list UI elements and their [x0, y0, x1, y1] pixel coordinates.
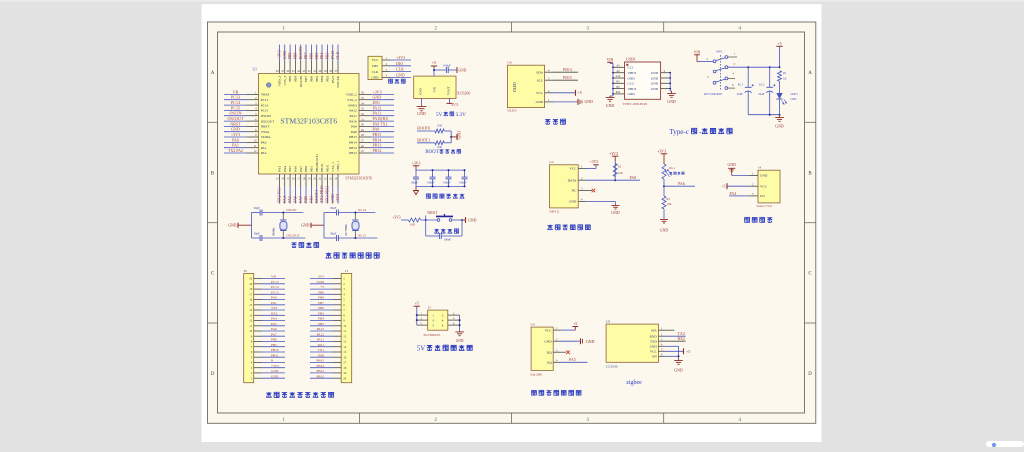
svg-text:PB5: PB5	[315, 76, 319, 82]
svg-text:VSSA: VSSA	[261, 130, 270, 134]
svg-text:30pF: 30pF	[330, 232, 337, 236]
svg-text:GND: GND	[651, 82, 659, 86]
caption download port	[389, 79, 406, 84]
svg-text:PB4: PB4	[318, 317, 324, 321]
svg-text:PC15: PC15	[358, 234, 366, 238]
capacitors C5-C8 100nF chip filter	[411, 161, 468, 194]
svg-text:AQ: AQ	[547, 361, 552, 365]
svg-text:PB6: PB6	[318, 306, 324, 310]
svg-text:PB9: PB9	[318, 290, 324, 294]
svg-text:+5: +5	[573, 322, 577, 326]
svg-text:PB11: PB11	[271, 353, 279, 357]
svg-text:BOOT0: BOOT0	[417, 126, 430, 131]
svg-text:TX2: TX2	[271, 306, 278, 310]
connector J1 20-pin header	[310, 269, 352, 383]
connector J2 Pin HDR2X3 backup power	[414, 302, 464, 343]
svg-text:5V: 5V	[417, 346, 425, 353]
svg-text:GND: GND	[585, 100, 594, 104]
svg-text:GND: GND	[419, 88, 423, 95]
svg-text:PA4: PA4	[271, 317, 277, 321]
svg-text:OSCOUT: OSCOUT	[227, 116, 244, 121]
svg-text:RX2 PA3: RX2 PA3	[277, 187, 282, 202]
svg-text:+3V3: +3V3	[412, 161, 421, 165]
svg-text:PA8: PA8	[373, 127, 380, 132]
svg-text:PB1: PB1	[309, 166, 313, 172]
schematic sheet with border frame	[208, 22, 816, 423]
svg-text:Sensor V2.0: Sensor V2.0	[757, 204, 773, 208]
svg-text:SDA: SDA	[536, 70, 543, 74]
svg-text:3V3: 3V3	[451, 102, 458, 107]
svg-text:PC14: PC14	[358, 208, 366, 212]
caption MCU minimal system	[326, 253, 380, 259]
svg-text:PA1: PA1	[261, 146, 267, 150]
svg-text:PB5: PB5	[318, 311, 324, 315]
svg-text:DIO: DIO	[372, 64, 378, 68]
svg-text:PB13: PB13	[373, 143, 382, 148]
svg-text:GND: GND	[667, 100, 676, 104]
connector J4 soil moisture Sensor V2.0	[721, 163, 780, 208]
svg-text:VCC: VCC	[372, 58, 380, 62]
svg-text:PB14: PB14	[373, 137, 382, 142]
caption Type-c power circuit	[670, 128, 733, 136]
sensor U2 DHT11 with pull-up R2	[549, 152, 640, 215]
resistors R4 R5 10K BOOT config	[417, 123, 462, 149]
svg-text:PC14: PC14	[271, 285, 279, 289]
svg-text:PA6: PA6	[271, 327, 277, 331]
svg-text:GND: GND	[417, 112, 426, 116]
svg-text:PA5: PA5	[271, 322, 277, 326]
svg-text:+3V3: +3V3	[590, 160, 598, 164]
svg-text:VB: VB	[233, 89, 239, 94]
svg-text:VCC: VCC	[545, 328, 553, 332]
svg-text:+3V3: +3V3	[277, 50, 282, 59]
svg-text:100nF: 100nF	[411, 180, 419, 184]
svg-text:PC15: PC15	[261, 109, 269, 113]
caption display screen	[545, 119, 565, 124]
svg-text:+3V3: +3V3	[396, 55, 405, 60]
svg-text:PB8: PB8	[293, 75, 297, 81]
svg-text:GND: GND	[536, 100, 544, 104]
svg-text:GND: GND	[301, 224, 310, 228]
svg-text:GND: GND	[468, 218, 477, 222]
svg-text:10: 10	[249, 329, 253, 333]
svg-text:VSS_3: VSS_3	[283, 76, 287, 86]
svg-text:BOOT1: BOOT1	[417, 137, 430, 142]
svg-text:100nF: 100nF	[427, 180, 435, 184]
svg-text:J4: J4	[758, 166, 761, 170]
svg-text:PB12: PB12	[373, 148, 382, 153]
svg-text:KQ-2801: KQ-2801	[531, 373, 543, 377]
svg-text:GND: GND	[674, 369, 683, 373]
svg-text:TXD: TXD	[650, 339, 657, 343]
svg-text:PA8: PA8	[318, 353, 324, 357]
svg-text:GND: GND	[282, 51, 287, 60]
svg-text:Type-c: Type-c	[670, 128, 689, 136]
svg-text:PB6: PB6	[308, 53, 313, 60]
svg-text:PB0: PB0	[271, 338, 277, 342]
svg-text:BOOT0: BOOT0	[298, 47, 303, 60]
svg-text:PB14: PB14	[563, 67, 572, 72]
svg-text:VB: VB	[271, 275, 276, 279]
svg-text:PB15: PB15	[373, 132, 382, 137]
svg-text:3V3: 3V3	[318, 275, 324, 279]
svg-text:Pin HDR2X3: Pin HDR2X3	[424, 333, 441, 337]
svg-text:RXD: RXD	[650, 334, 658, 338]
svg-text:PC14: PC14	[231, 100, 240, 105]
svg-text:OLED: OLED	[513, 82, 517, 92]
svg-text:PB3: PB3	[318, 322, 324, 326]
svg-text:GND: GND	[660, 229, 669, 233]
svg-text:10: 10	[343, 324, 347, 328]
svg-text:U3: U3	[606, 319, 610, 323]
svg-text:DIO: DIO	[396, 61, 403, 66]
svg-text:100nF: 100nF	[459, 180, 467, 184]
svg-text:10K: 10K	[667, 202, 673, 206]
svg-text:PC15: PC15	[231, 105, 240, 110]
crystal Y2 32.768K with 30pF load caps	[301, 206, 377, 241]
svg-text:13: 13	[343, 340, 347, 344]
svg-text:PA15: PA15	[317, 327, 325, 331]
svg-text:PB11: PB11	[325, 164, 329, 172]
svg-text:CC2530: CC2530	[606, 365, 618, 369]
svg-text:PA8: PA8	[351, 130, 357, 134]
svg-text:VDD_3: VDD_3	[278, 76, 282, 87]
svg-text:TX3 PB10: TX3 PB10	[319, 186, 324, 203]
svg-text:J1: J1	[345, 269, 348, 273]
svg-text:+3V3: +3V3	[609, 152, 618, 156]
svg-text:PB12: PB12	[349, 151, 357, 155]
svg-text:PB2/BOOT1: PB2/BOOT1	[315, 154, 319, 172]
svg-text:5V: 5V	[436, 112, 443, 118]
svg-text:100nF: 100nF	[444, 237, 452, 241]
svg-text:LED: LED	[791, 97, 798, 101]
svg-text:GND: GND	[456, 339, 464, 343]
svg-text:TYPEC-2000-BCP6: TYPEC-2000-BCP6	[623, 102, 648, 106]
svg-text:U4: U4	[531, 322, 535, 326]
svg-text:19: 19	[249, 282, 253, 286]
svg-text:PA0: PA0	[232, 137, 239, 142]
svg-text:+3V3: +3V3	[231, 132, 240, 137]
svg-text:SWIO: SWIO	[348, 103, 357, 107]
caption zigbee	[626, 380, 642, 386]
svg-text:10K: 10K	[618, 171, 624, 175]
svg-text:PA4: PA4	[282, 196, 287, 203]
svg-text:PB14: PB14	[316, 364, 324, 368]
U1 left pins 1-12 with net labels	[224, 89, 275, 155]
svg-text:RX3 PB11: RX3 PB11	[324, 185, 329, 202]
svg-text:GND: GND	[371, 76, 379, 80]
svg-text:OSCOUT: OSCOUT	[286, 234, 300, 238]
svg-text:16: 16	[343, 355, 347, 359]
svg-text:CC2: CC2	[628, 82, 634, 86]
svg-text:PA4: PA4	[730, 191, 737, 196]
svg-text:PA7: PA7	[299, 166, 303, 172]
svg-text:+5: +5	[578, 90, 582, 95]
svg-text:SWCLK: SWCLK	[336, 75, 340, 87]
connector USB1 TYPEC-2000-BCP6	[606, 57, 676, 108]
svg-text:19: 19	[343, 371, 347, 375]
svg-text:I/O: I/O	[760, 194, 765, 198]
svg-text:GND: GND	[373, 95, 382, 100]
svg-text:TX2 PA2: TX2 PA2	[228, 148, 243, 153]
svg-text:DHT11: DHT11	[549, 209, 560, 213]
svg-text:STM32F103C8T6: STM32F103C8T6	[346, 176, 373, 180]
svg-text:GND: GND	[650, 345, 658, 349]
caption BOOT set circuit	[425, 149, 460, 155]
svg-text:32.768K: 32.768K	[344, 224, 348, 236]
svg-text:GND: GND	[760, 174, 768, 178]
svg-text:+3V3: +3V3	[657, 149, 666, 153]
svg-text:22uF: 22uF	[737, 92, 744, 96]
svg-text:R3: R3	[667, 197, 671, 201]
svg-text:GND: GND	[651, 87, 659, 91]
svg-text:XC6206: XC6206	[457, 91, 471, 96]
svg-text:OSCIN: OSCIN	[229, 111, 241, 116]
svg-text:PB8: PB8	[318, 296, 324, 300]
svg-text:CLK: CLK	[396, 67, 404, 72]
svg-text:GND: GND	[458, 131, 462, 140]
svg-text:EC2: EC2	[759, 82, 765, 86]
svg-text:VBUS: VBUS	[628, 87, 637, 91]
svg-text:+5: +5	[415, 302, 419, 306]
svg-text:RX2: RX2	[271, 311, 278, 315]
svg-text:PB13: PB13	[349, 146, 357, 150]
svg-text:STM32F103C8T6: STM32F103C8T6	[280, 117, 337, 126]
sensor U4 KQ-2801 CO2	[531, 322, 595, 377]
svg-text:PB7: PB7	[304, 76, 308, 82]
svg-text:GND: GND	[459, 68, 467, 72]
svg-text:PA5: PA5	[287, 196, 292, 203]
caption soil moisture	[745, 217, 773, 222]
svg-text:30pF: 30pF	[254, 206, 261, 210]
svg-text:PA15: PA15	[331, 76, 335, 84]
svg-text:VCC: VCC	[760, 184, 768, 188]
svg-text:10K: 10K	[437, 123, 443, 127]
svg-text:PB7: PB7	[318, 301, 324, 305]
svg-text:PA3: PA3	[278, 166, 282, 172]
svg-text:PB0: PB0	[304, 166, 308, 172]
svg-text:J5: J5	[244, 269, 247, 273]
svg-text:OLED: OLED	[507, 108, 517, 112]
svg-text:SCL: SCL	[537, 78, 543, 82]
svg-text:16: 16	[249, 298, 253, 302]
caption 5V stepdown 3.3V	[436, 112, 466, 118]
svg-text:VBUS: VBUS	[628, 71, 637, 75]
caption MCU pin breakout headers	[266, 392, 334, 398]
svg-text:PB4: PB4	[319, 53, 324, 60]
svg-text:BOOT0: BOOT0	[299, 76, 303, 87]
svg-text:DATA: DATA	[568, 178, 577, 182]
svg-text:+5: +5	[686, 349, 690, 354]
svg-text:PA10(RX: PA10(RX	[373, 116, 389, 121]
svg-text:GND: GND	[330, 194, 335, 203]
svg-text:30pF: 30pF	[330, 206, 337, 210]
svg-text:VSS_1: VSS_1	[331, 162, 335, 172]
svg-text:PC15: PC15	[271, 290, 279, 294]
svg-text:NRST: NRST	[230, 121, 241, 126]
svg-text:D: D	[808, 372, 812, 377]
svg-text:GND: GND	[611, 211, 620, 215]
svg-text:PB6: PB6	[309, 75, 313, 81]
svg-text:PB1: PB1	[308, 196, 313, 203]
svg-text:+5: +5	[320, 285, 324, 289]
svg-text:BOOT: BOOT	[425, 150, 438, 155]
svg-text:PB10: PB10	[271, 348, 279, 352]
svg-text:B12: B12	[616, 91, 621, 94]
svg-text:22uF: 22uF	[758, 92, 765, 96]
svg-text:18: 18	[343, 366, 347, 370]
svg-text:A: A	[211, 71, 215, 76]
svg-text:STA: STA	[651, 328, 658, 332]
svg-text:12: 12	[249, 319, 253, 323]
svg-text:PA9 TX1: PA9 TX1	[373, 121, 388, 126]
svg-text:GND: GND	[628, 92, 636, 96]
svg-text:PC13: PC13	[271, 280, 279, 284]
svg-text:GND: GND	[586, 340, 595, 344]
svg-text:OSCOUT: OSCOUT	[261, 119, 275, 123]
svg-text:RX1: RX1	[318, 343, 325, 347]
svg-text:PA5: PA5	[569, 357, 576, 362]
svg-text:GND: GND	[317, 280, 325, 284]
svg-text:PA6: PA6	[293, 166, 297, 172]
svg-text:GND: GND	[569, 200, 577, 204]
svg-text:PB3: PB3	[324, 53, 329, 60]
svg-text:30pF: 30pF	[254, 232, 261, 236]
svg-text:PC13: PC13	[261, 98, 269, 102]
svg-text:GND: GND	[271, 369, 279, 373]
svg-text:VSS_2: VSS_2	[347, 98, 357, 102]
svg-text:PA2: PA2	[261, 151, 267, 155]
svg-text:PA5: PA5	[288, 166, 292, 172]
svg-text:VOUT: VOUT	[446, 86, 450, 95]
svg-text:14: 14	[343, 345, 347, 349]
svg-text:PA0: PA0	[261, 141, 267, 145]
svg-text:PB10: PB10	[320, 164, 324, 172]
svg-text:+5: +5	[721, 184, 725, 189]
svg-text:20: 20	[343, 376, 347, 380]
svg-text:PA12: PA12	[373, 105, 382, 110]
svg-text:VDD_2: VDD_2	[346, 93, 357, 97]
U1 right pins 36-25 with net labels	[346, 89, 394, 155]
svg-text:PA10: PA10	[349, 119, 357, 123]
svg-text:GND: GND	[651, 71, 659, 75]
svg-text:+3V3: +3V3	[373, 89, 382, 94]
svg-text:OSCIN: OSCIN	[261, 114, 272, 118]
svg-text:15: 15	[249, 303, 253, 307]
caption chip filter capacitors	[426, 194, 464, 199]
svg-text:EN: EN	[652, 355, 657, 359]
U1 top pins 48-37 with net labels	[276, 45, 340, 88]
svg-text:10K: 10K	[410, 223, 416, 227]
svg-text:PA1: PA1	[271, 301, 277, 305]
svg-text:VIN: VIN	[694, 50, 701, 54]
svg-text:PB7: PB7	[303, 53, 308, 60]
svg-text:VDDA: VDDA	[261, 135, 271, 139]
svg-text:11: 11	[249, 324, 252, 328]
svg-text:PC14: PC14	[261, 103, 269, 107]
svg-text:zigbee: zigbee	[626, 380, 642, 386]
svg-text:PA4: PA4	[283, 166, 287, 172]
svg-text:PA11: PA11	[317, 338, 325, 342]
svg-text:PB0: PB0	[303, 196, 308, 203]
svg-text:3.3V: 3.3V	[456, 112, 466, 118]
svg-text:PB5: PB5	[314, 53, 319, 60]
svg-text:8MHz: 8MHz	[272, 227, 276, 236]
svg-text:PA0: PA0	[271, 296, 277, 300]
svg-text:GND: GND	[628, 76, 636, 80]
svg-text:NRST: NRST	[427, 210, 438, 215]
svg-text:R1: R1	[783, 71, 787, 75]
svg-text:100nF: 100nF	[443, 180, 451, 184]
svg-text:10K: 10K	[437, 145, 443, 149]
svg-text:PB12: PB12	[316, 374, 324, 378]
svg-text:PA9: PA9	[351, 125, 357, 129]
caption carbon dioxide sensor	[532, 390, 581, 395]
svg-text:J2: J2	[428, 305, 431, 309]
svg-text:D: D	[211, 372, 215, 377]
svg-text:17: 17	[249, 292, 253, 296]
svg-text:LED1: LED1	[791, 92, 799, 96]
svg-text:PA7: PA7	[271, 332, 277, 336]
svg-text:14: 14	[249, 308, 253, 312]
svg-text:PA1: PA1	[232, 143, 239, 148]
svg-text:18: 18	[249, 287, 253, 291]
svg-text:PB8: PB8	[292, 53, 297, 60]
svg-text:PB4: PB4	[320, 76, 324, 82]
svg-text:GND: GND	[727, 163, 736, 167]
svg-text:PA11: PA11	[350, 114, 358, 118]
svg-text:PB13: PB13	[316, 369, 324, 373]
svg-text:VIN: VIN	[607, 58, 614, 62]
svg-text:PA6: PA6	[292, 196, 297, 203]
U1 bottom pins 13-24 with net labels	[276, 154, 340, 204]
svg-text:A12: A12	[616, 75, 621, 78]
svg-text:U1: U1	[253, 68, 258, 72]
svg-text:PC13: PC13	[231, 95, 240, 100]
photoresistor RG1 with R3 10K divider	[657, 149, 695, 232]
svg-text:A: A	[808, 71, 812, 76]
svg-text:PB3: PB3	[325, 75, 329, 81]
connector J5 20-pin header	[244, 269, 285, 383]
svg-text:PA11: PA11	[373, 111, 382, 116]
svg-text:GND: GND	[775, 124, 784, 128]
svg-text:+3V3: +3V3	[392, 215, 400, 219]
svg-text:U6: U6	[507, 61, 511, 65]
crystal Y1 8MHz with 30pF load caps	[228, 206, 305, 241]
svg-text:13: 13	[249, 313, 253, 317]
svg-text:PA6: PA6	[678, 181, 685, 186]
svg-text:SW1: SW1	[716, 49, 723, 53]
svg-text:PA12: PA12	[349, 109, 357, 113]
svg-text:NC: NC	[572, 189, 577, 193]
svg-text:100nF: 100nF	[443, 64, 451, 68]
svg-text:+3V3: +3V3	[335, 194, 340, 203]
svg-text:NRST: NRST	[261, 125, 271, 129]
connector P1 download port	[368, 55, 411, 80]
svg-text:CLK: CLK	[335, 51, 340, 59]
svg-text:VBAT: VBAT	[261, 93, 271, 97]
svg-text:+3V3: +3V3	[271, 364, 279, 368]
switch SW1 KFT DIP-8X8 with EC1 EC2 22uF caps	[694, 42, 784, 129]
svg-text:PB14: PB14	[349, 141, 357, 145]
svg-text:11: 11	[343, 329, 346, 333]
resistor R1 1K and LED1	[776, 71, 798, 115]
svg-text:PB15: PB15	[349, 135, 357, 139]
svg-text:PB9: PB9	[287, 53, 292, 60]
svg-text:PB2: PB2	[271, 343, 277, 347]
svg-text:VDD_1: VDD_1	[336, 161, 340, 172]
svg-text:KFT DIP-8X8: KFT DIP-8X8	[704, 92, 722, 96]
